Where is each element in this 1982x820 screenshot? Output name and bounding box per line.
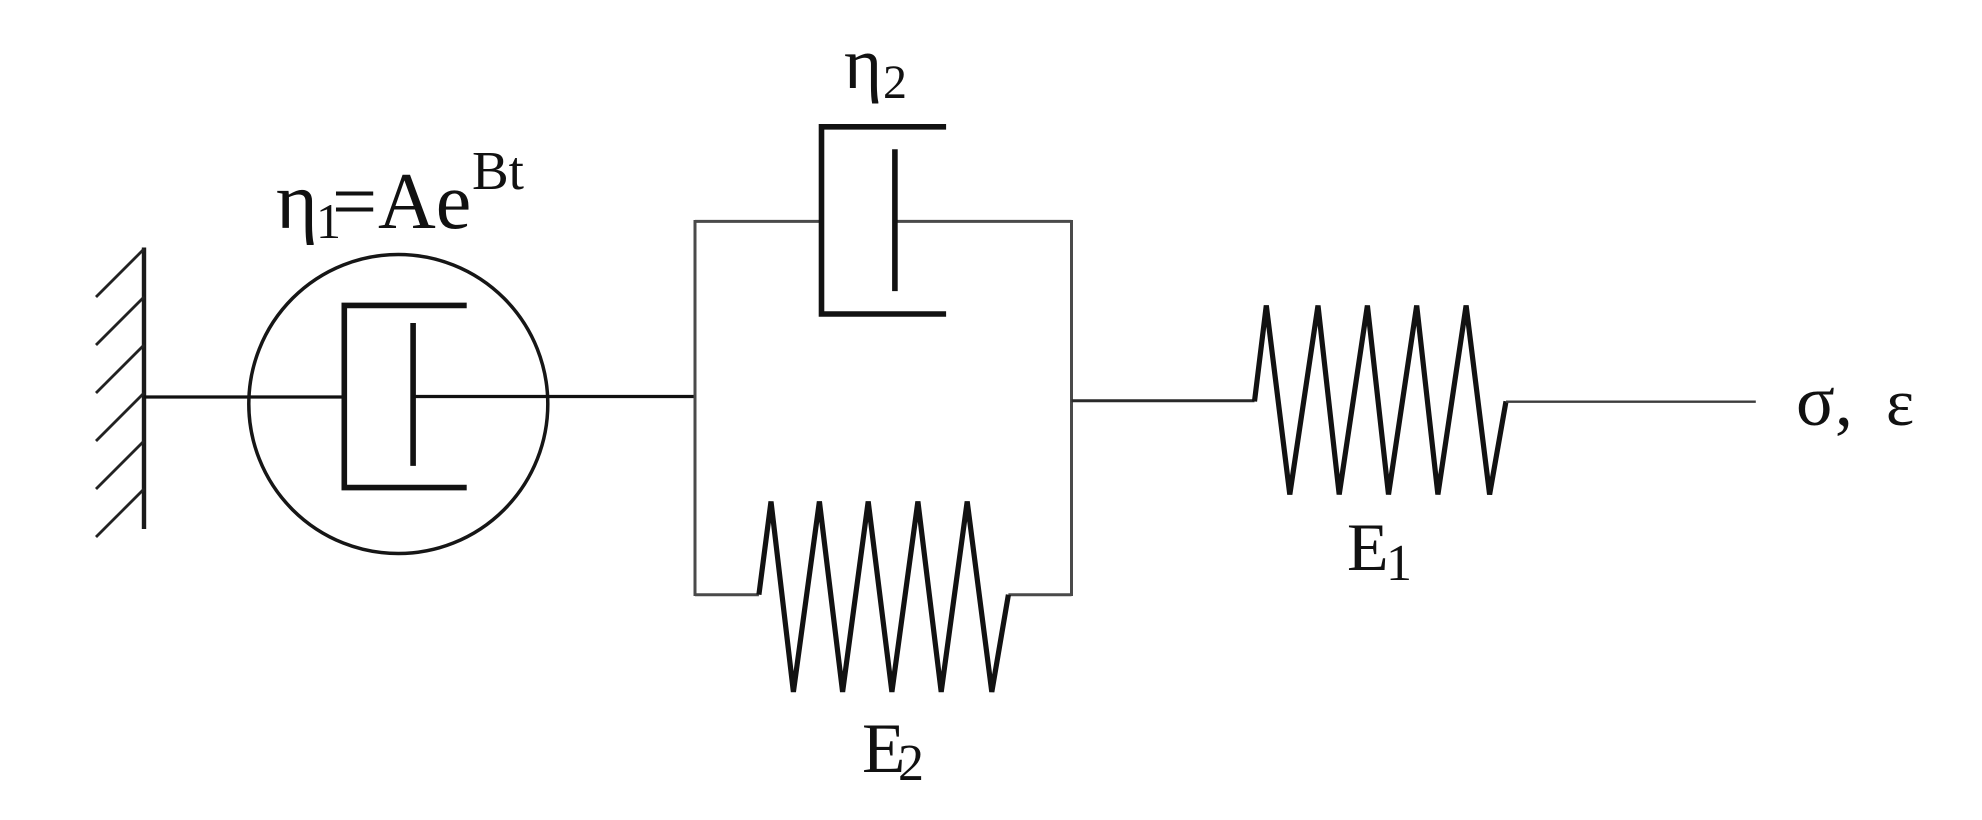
- wire wall to dashpot eta1: [144, 395, 344, 398]
- dashpot eta2 cylinder: [822, 127, 947, 314]
- wire box to spring E1: [1072, 399, 1255, 402]
- wall hatching: [96, 249, 144, 537]
- svg-text:2: 2: [898, 735, 924, 792]
- svg-text:ε: ε: [1886, 366, 1914, 440]
- label E2: [862, 710, 924, 792]
- spring E2: [759, 502, 1009, 692]
- svg-text:η: η: [844, 23, 882, 104]
- dashpot eta1 piston: [410, 323, 416, 466]
- label eta1=Ae^Bt: [276, 140, 524, 249]
- svg-text:Bt: Bt: [472, 140, 524, 201]
- label E1: [1347, 509, 1412, 592]
- wire dashpot eta1 to parallel box: [413, 395, 695, 398]
- parallel (Kelvin) box frame: [695, 220, 1072, 596]
- svg-text:σ,: σ,: [1796, 361, 1853, 441]
- svg-text:Ae: Ae: [378, 158, 471, 246]
- svg-text:1: 1: [1386, 535, 1412, 592]
- svg-text:=: =: [332, 158, 377, 246]
- svg-text:E: E: [1347, 509, 1389, 585]
- svg-text:2: 2: [883, 56, 907, 109]
- dashpot eta1 cylinder: [344, 305, 466, 487]
- dashpot eta1 circle: [249, 255, 548, 554]
- spring E1: [1255, 306, 1507, 495]
- wire spring E1 to free end: [1506, 401, 1756, 403]
- fixed wall: [142, 248, 146, 530]
- label sigma, epsilon: [1796, 361, 1914, 441]
- svg-text:η: η: [276, 158, 318, 246]
- label eta2: [844, 23, 907, 109]
- dashpot eta2 piston: [892, 149, 898, 291]
